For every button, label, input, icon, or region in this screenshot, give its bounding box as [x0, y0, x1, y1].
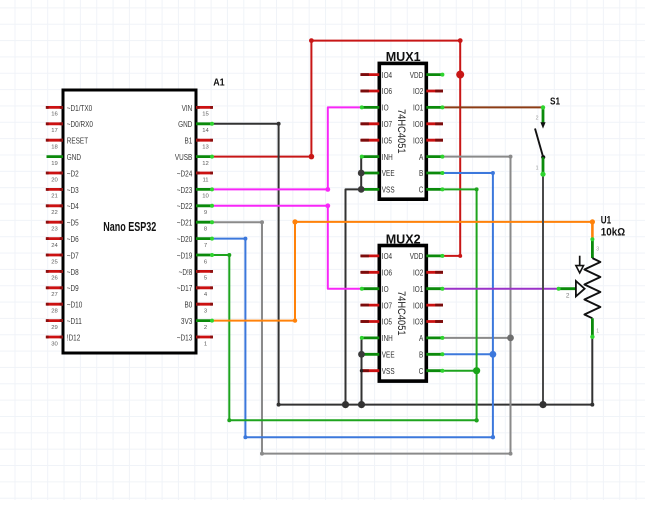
- svg-text:VUSB: VUSB: [175, 153, 192, 162]
- svg-text:5: 5: [204, 276, 208, 282]
- svg-text:74HC4051: 74HC4051: [395, 109, 407, 154]
- MUX1 pin IO (left): [360, 104, 389, 113]
- svg-text:~D4: ~D4: [67, 202, 79, 211]
- pin 24 ~D6 (left): [46, 235, 79, 249]
- wire black GND rail from nano GND to pot bottom: [213, 122, 595, 407]
- svg-text:GND: GND: [67, 153, 82, 162]
- svg-text:VDD: VDD: [410, 71, 424, 80]
- pin 8 ~D21 (right): [177, 219, 214, 233]
- junction black rail-MUX1: [342, 401, 349, 408]
- wire gray net A: nano ~D21 to MUX1 A and MUX2 A: [213, 155, 513, 456]
- svg-text:18: 18: [51, 145, 58, 151]
- svg-text:INH: INH: [382, 153, 393, 162]
- MUX1 pin C (right): [419, 186, 445, 195]
- svg-text:VDD: VDD: [410, 252, 424, 261]
- pin 12 VUSB (right): [175, 153, 214, 167]
- MUX1 pin IO4 (left): [360, 71, 392, 80]
- svg-text:26: 26: [51, 276, 58, 282]
- svg-text:8: 8: [204, 227, 208, 233]
- svg-text:7: 7: [204, 243, 207, 249]
- label U1 value 10k ohm: [601, 215, 625, 239]
- svg-text:U1: U1: [601, 215, 611, 227]
- MUX2 pin A (right): [419, 334, 444, 343]
- wire brown MUX1 IO1 to switch S1: [443, 106, 543, 108]
- MUX2 pin VSS (left): [360, 367, 394, 376]
- wire red net VUSB to MUX VDD rail: [213, 38, 463, 258]
- pin 26 ~D8 (left): [46, 268, 79, 282]
- junction black MUX2 VSS bendpoint: [360, 369, 363, 372]
- svg-text:GND: GND: [178, 120, 193, 129]
- svg-text:9: 9: [204, 210, 207, 216]
- multiplexer MUX1 74HC4051: [379, 63, 426, 199]
- svg-text:10: 10: [202, 194, 209, 200]
- junction blue MUX2 B: [490, 351, 497, 358]
- svg-text:~D8: ~D8: [67, 268, 79, 277]
- MUX2 pin VDD (right): [410, 252, 445, 261]
- pin 20 ~D2 (left): [46, 169, 79, 183]
- svg-text:~D2: ~D2: [67, 169, 79, 178]
- pin 3 B0 (right): [185, 301, 214, 315]
- pin 22 ~D4 (left): [46, 202, 79, 216]
- MUX1 pin IO0 (right): [413, 120, 443, 129]
- svg-text:VSS: VSS: [382, 367, 395, 376]
- MUX2 pin INH (left): [360, 334, 393, 343]
- junction gray MUX2 A: [507, 335, 514, 342]
- svg-text:IO0: IO0: [413, 301, 424, 310]
- svg-text:~D10: ~D10: [67, 301, 83, 310]
- svg-text:A: A: [419, 334, 424, 343]
- wire magenta nano ~D22 to MUX2 IO: [213, 203, 362, 288]
- svg-text:IO: IO: [382, 104, 389, 113]
- svg-text:IO0: IO0: [413, 120, 424, 129]
- MUX1 pin IO1 (right): [413, 104, 444, 113]
- svg-text:!D12: !D12: [67, 333, 81, 342]
- svg-text:VIN: VIN: [182, 104, 193, 113]
- svg-text:RESET: RESET: [67, 137, 88, 146]
- svg-text:30: 30: [51, 341, 58, 347]
- svg-text:B1: B1: [185, 137, 193, 146]
- pin 1 ~D13 (right): [177, 333, 213, 347]
- svg-text:IO3: IO3: [413, 136, 423, 145]
- svg-text:IO1: IO1: [413, 104, 423, 113]
- svg-text:1: 1: [204, 341, 207, 347]
- MUX1 pin INH (left): [360, 153, 393, 162]
- pin 30 !D12 (left): [46, 333, 81, 347]
- svg-text:16: 16: [51, 112, 58, 118]
- svg-text:MUX1: MUX1: [386, 49, 421, 64]
- svg-text:~D19: ~D19: [177, 251, 193, 260]
- potentiometer U1 10k: [557, 237, 601, 339]
- svg-text:Nano ESP32: Nano ESP32: [103, 220, 156, 234]
- svg-text:21: 21: [51, 194, 58, 200]
- pin 21 ~D3 (left): [46, 186, 79, 200]
- switch S1: [535, 105, 546, 177]
- svg-text:2: 2: [204, 325, 207, 331]
- svg-text:~D7: ~D7: [67, 251, 79, 260]
- MUX1 pin VEE (left): [360, 169, 395, 178]
- svg-text:C: C: [419, 367, 424, 376]
- svg-text:~D3: ~D3: [67, 186, 79, 195]
- svg-text:~D24: ~D24: [177, 169, 193, 178]
- svg-text:IO5: IO5: [382, 318, 393, 327]
- MUX1 pin IO2 (right): [413, 87, 443, 96]
- wire purple MUX2 IO1 to pot wiper: [443, 288, 558, 290]
- svg-text:29: 29: [51, 325, 58, 331]
- svg-text:VEE: VEE: [382, 169, 395, 178]
- svg-text:23: 23: [51, 227, 58, 233]
- pin 2 3V3 (right): [181, 317, 214, 331]
- svg-text:IO7: IO7: [382, 120, 392, 129]
- microcontroller A1 Nano ESP32: [63, 90, 196, 353]
- MUX1 pin VDD (right): [410, 71, 445, 80]
- MUX2 pin IO0 (right): [413, 301, 443, 310]
- svg-text:~D23: ~D23: [177, 186, 193, 195]
- junction black rail-S1: [539, 401, 546, 408]
- MUX1 pin VSS (left): [360, 186, 395, 195]
- svg-text:B: B: [419, 169, 423, 178]
- MUX2 pin IO6 (left): [360, 269, 392, 278]
- svg-text:13: 13: [202, 145, 209, 151]
- svg-text:IO2: IO2: [413, 269, 423, 278]
- pin 9 ~D22 (right): [177, 202, 214, 216]
- svg-text:~D13: ~D13: [177, 333, 193, 342]
- MUX1 pin IO7 (left): [360, 120, 392, 129]
- svg-text:B0: B0: [185, 301, 193, 310]
- svg-text:~D6: ~D6: [67, 235, 79, 244]
- wire blue net B: nano ~D20 to MUX1 B and MUX2 B: [213, 171, 496, 439]
- pin 4 ~D17 (right): [177, 284, 213, 298]
- svg-text:~D0/RX0: ~D0/RX0: [67, 120, 94, 129]
- MUX2 pin IO7 (left): [360, 301, 392, 310]
- junction black MUX1 VSS: [358, 186, 365, 193]
- svg-text:14: 14: [202, 128, 209, 134]
- junction black MUX2 VEE: [358, 351, 365, 358]
- pin 17 ~D0/RX0 (left): [46, 120, 94, 134]
- MUX2 pin IO2 (right): [413, 269, 443, 278]
- svg-text:S1: S1: [550, 96, 560, 108]
- svg-text:17: 17: [51, 128, 58, 134]
- svg-text:~D20: ~D20: [177, 235, 193, 244]
- svg-text:IO: IO: [382, 285, 389, 294]
- pin 16 ~D1/TX0 (left): [46, 104, 93, 118]
- svg-text:20: 20: [51, 177, 58, 183]
- svg-text:10kΩ: 10kΩ: [601, 226, 625, 238]
- MUX2 pin IO3 (right): [413, 318, 443, 327]
- svg-text:15: 15: [202, 112, 209, 118]
- svg-text:19: 19: [51, 161, 58, 167]
- svg-text:IO1: IO1: [413, 285, 423, 294]
- pin 27 ~D9 (left): [46, 284, 79, 298]
- svg-text:IO6: IO6: [382, 269, 392, 278]
- svg-text:IO2: IO2: [413, 87, 423, 96]
- svg-text:IO4: IO4: [382, 252, 393, 261]
- pin 18 RESET (left): [46, 137, 88, 151]
- svg-text:IO3: IO3: [413, 318, 423, 327]
- svg-text:11: 11: [202, 177, 208, 183]
- svg-text:~D5: ~D5: [67, 219, 79, 228]
- svg-text:~D1/TX0: ~D1/TX0: [67, 104, 93, 113]
- MUX2 pin IO1 (right): [413, 285, 444, 294]
- svg-text:1: 1: [536, 166, 539, 172]
- svg-text:C: C: [419, 186, 424, 195]
- svg-text:IO5: IO5: [382, 136, 393, 145]
- svg-text:IO6: IO6: [382, 87, 392, 96]
- wire black MUX2 INH/VEE to ground rail: [361, 338, 363, 405]
- pin 23 ~D5 (left): [46, 219, 79, 233]
- svg-text:74HC4051: 74HC4051: [395, 291, 407, 336]
- junction black rail-MUX2: [358, 401, 365, 408]
- junction red at MUX1 VDD: [456, 71, 464, 79]
- pin 25 ~D7 (left): [46, 251, 79, 265]
- MUX2 pin B (right): [419, 351, 444, 360]
- svg-text:~D22: ~D22: [177, 202, 193, 211]
- svg-text:IO7: IO7: [382, 301, 392, 310]
- MUX2 pin IO (left): [360, 285, 389, 294]
- svg-text:1: 1: [596, 329, 599, 335]
- svg-text:2: 2: [566, 293, 570, 300]
- pin 6 ~D19 (right): [177, 251, 214, 265]
- MUX2 pin C (right): [419, 367, 445, 376]
- pin 11 ~D24 (right): [177, 169, 213, 183]
- svg-text:B: B: [419, 351, 423, 360]
- MUX1 pin B (right): [419, 169, 444, 178]
- svg-text:3: 3: [204, 309, 208, 315]
- svg-text:VEE: VEE: [382, 351, 395, 360]
- pin 28 ~D10 (left): [46, 301, 83, 315]
- MUX1 pin IO3 (right): [413, 136, 443, 145]
- junction green MUX2 C: [473, 367, 480, 374]
- svg-text:~D17: ~D17: [177, 284, 193, 293]
- svg-text:6: 6: [204, 259, 208, 265]
- pin 5 ~D!8 (right): [179, 268, 213, 282]
- svg-text:22: 22: [51, 210, 58, 216]
- svg-text:A: A: [419, 153, 424, 162]
- svg-text:A1: A1: [213, 78, 225, 89]
- MUX1 pin A (right): [419, 153, 444, 162]
- svg-text:28: 28: [51, 309, 58, 315]
- wire green net C: nano ~D19 to MUX1 C and MUX2 C: [213, 187, 479, 422]
- svg-text:3: 3: [596, 247, 599, 253]
- svg-text:24: 24: [51, 243, 58, 249]
- svg-text:MUX2: MUX2: [386, 231, 421, 246]
- svg-text:4: 4: [204, 292, 208, 298]
- svg-text:INH: INH: [382, 334, 393, 343]
- svg-text:3V3: 3V3: [181, 317, 192, 326]
- svg-text:~D21: ~D21: [177, 219, 193, 228]
- svg-text:~D11: ~D11: [67, 317, 82, 326]
- svg-text:VSS: VSS: [382, 186, 395, 195]
- junction black MUX1 VEE: [358, 170, 365, 177]
- MUX2 pin IO5 (left): [360, 318, 392, 327]
- wire black MUX1 INH/VEE/VSS to ground rail: [346, 157, 381, 405]
- pin 19 GND (left): [47, 153, 82, 167]
- svg-text:~D9: ~D9: [67, 284, 79, 293]
- svg-text:12: 12: [202, 161, 209, 167]
- MUX2 pin IO4 (left): [360, 252, 392, 261]
- svg-text:~D!8: ~D!8: [179, 268, 193, 277]
- pin 29 ~D11 (left): [46, 317, 82, 331]
- svg-text:25: 25: [51, 259, 58, 265]
- svg-text:27: 27: [51, 292, 58, 298]
- multiplexer MUX2 74HC4051: [379, 246, 426, 382]
- wire magenta nano ~D23 to MUX1 IO: [213, 107, 362, 191]
- wire orange nano 3V3 to pot U1 top: [213, 219, 596, 323]
- MUX2 pin VEE (left): [360, 351, 395, 360]
- MUX1 pin IO5 (left): [360, 136, 392, 145]
- pin 14 GND (right): [178, 120, 214, 134]
- svg-text:IO4: IO4: [382, 71, 393, 80]
- pin 13 B1 (right): [185, 137, 214, 151]
- wire dark gray switch S1 bottom to ground rail: [542, 174, 544, 404]
- pin 15 VIN (right): [182, 104, 213, 118]
- pin 7 ~D20 (right): [177, 235, 214, 249]
- pin 10 ~D23 (right): [177, 186, 214, 200]
- MUX1 pin IO6 (left): [360, 87, 392, 96]
- svg-text:2: 2: [536, 116, 539, 122]
